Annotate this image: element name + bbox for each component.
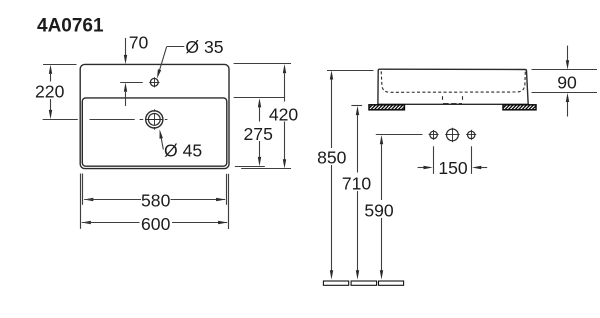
tap hole middle (front view) [445,128,459,142]
extension line bottom left outer [80,174,82,229]
drain hole Ø45 (plan view) [146,111,163,128]
dimension 580 line [84,198,225,201]
countertop support left (hatched) [364,105,406,110]
leader line for Ø 35 [157,47,184,79]
dimension 590 line [380,135,383,280]
svg-text:710: 710 [342,174,372,194]
dimension 420 extension line bottom [241,168,291,170]
dimension 710 line [356,106,359,280]
svg-text:220: 220 [35,81,65,101]
dimension text 275 [244,124,274,144]
dimension 220 extension line top [43,64,77,66]
dimension 220 line [49,65,52,120]
dimension text Ø 35 [185,37,223,57]
inner bowl profile (hidden, dashed) [381,71,525,92]
countertop support right (hatched) [498,105,540,110]
svg-text:580: 580 [141,190,171,210]
extension line bottom right bowl [226,174,228,205]
drain outlet hidden line right [462,96,464,100]
drain hole centerline vertical [154,109,156,129]
dimension 275 extension line bottom (bowl bottom) [235,166,265,168]
floor line segment middle [351,281,377,285]
dimension 70 line above [124,38,127,64]
dimension text 90 [557,73,577,93]
dimension 275 extension line top (bowl top) [234,97,285,99]
drain outlet hidden line bottom [443,103,462,105]
drain outlet hidden line left [442,96,444,100]
tap hole Ø35 (plan view) [149,77,159,87]
dimension text 580 [141,190,171,210]
tap holes centerline [376,134,423,136]
title model number 4A0761 [37,16,104,37]
svg-text:420: 420 [269,104,299,124]
svg-text:850: 850 [317,148,347,168]
dimension 710 reference tick [351,105,362,107]
svg-text:275: 275 [244,124,274,144]
svg-text:150: 150 [438,158,468,178]
dimension text Ø 45 [164,140,202,160]
dimension 420 extension line top [234,63,291,65]
dimension text 590 [364,200,394,220]
dimension 850 extension line top [327,70,374,72]
floor line segment left [323,281,348,285]
dimension text 850 [317,148,347,168]
dimension 150 extension line left [433,146,435,174]
floor line segment right [379,281,404,285]
dimension text 220 [35,81,65,101]
dimension 150 line left arrow [418,166,433,169]
dimension 90 line above [566,46,569,70]
svg-text:Ø 35: Ø 35 [185,37,223,57]
dimension 90 line below [566,93,569,117]
extension line bottom left bowl [82,174,84,205]
dimension text 70 [129,32,149,52]
svg-text:600: 600 [141,214,171,234]
dimension 150 extension line right [471,146,473,174]
dimension 600 line [82,221,228,224]
dimension 220 extension line bottom [43,119,78,121]
svg-text:90: 90 [557,73,577,93]
svg-text:Ø 45: Ø 45 [164,140,202,160]
washbasin outer rim (plan view) [80,64,229,168]
dimension text 150 [438,158,468,178]
dimension 90 extension line bottom [532,92,598,94]
dimension 275 line [258,98,261,166]
dimension text 420 [269,104,299,124]
dimension 850 line [330,70,333,279]
dimension text 600 [141,214,171,234]
washbasin inner bowl edge (plan view) [82,98,227,166]
dimension 420 line [283,64,286,169]
dimension text 710 [342,174,372,194]
dimension 90 extension line top [532,69,598,71]
tap hole left (front view) [429,130,439,140]
dimension 70 line below [120,83,143,107]
tap hole right (front view) [466,130,476,140]
svg-text:70: 70 [129,32,149,52]
svg-text:590: 590 [364,200,394,220]
extension line bottom right outer [228,174,230,229]
washbasin body outline (front view) [378,69,528,104]
leader line for Ø 45 [160,129,164,149]
svg-text:4A0761: 4A0761 [37,16,104,37]
dimension 150 line right arrow [472,166,487,169]
drain hole centerline horizontal [90,119,168,121]
